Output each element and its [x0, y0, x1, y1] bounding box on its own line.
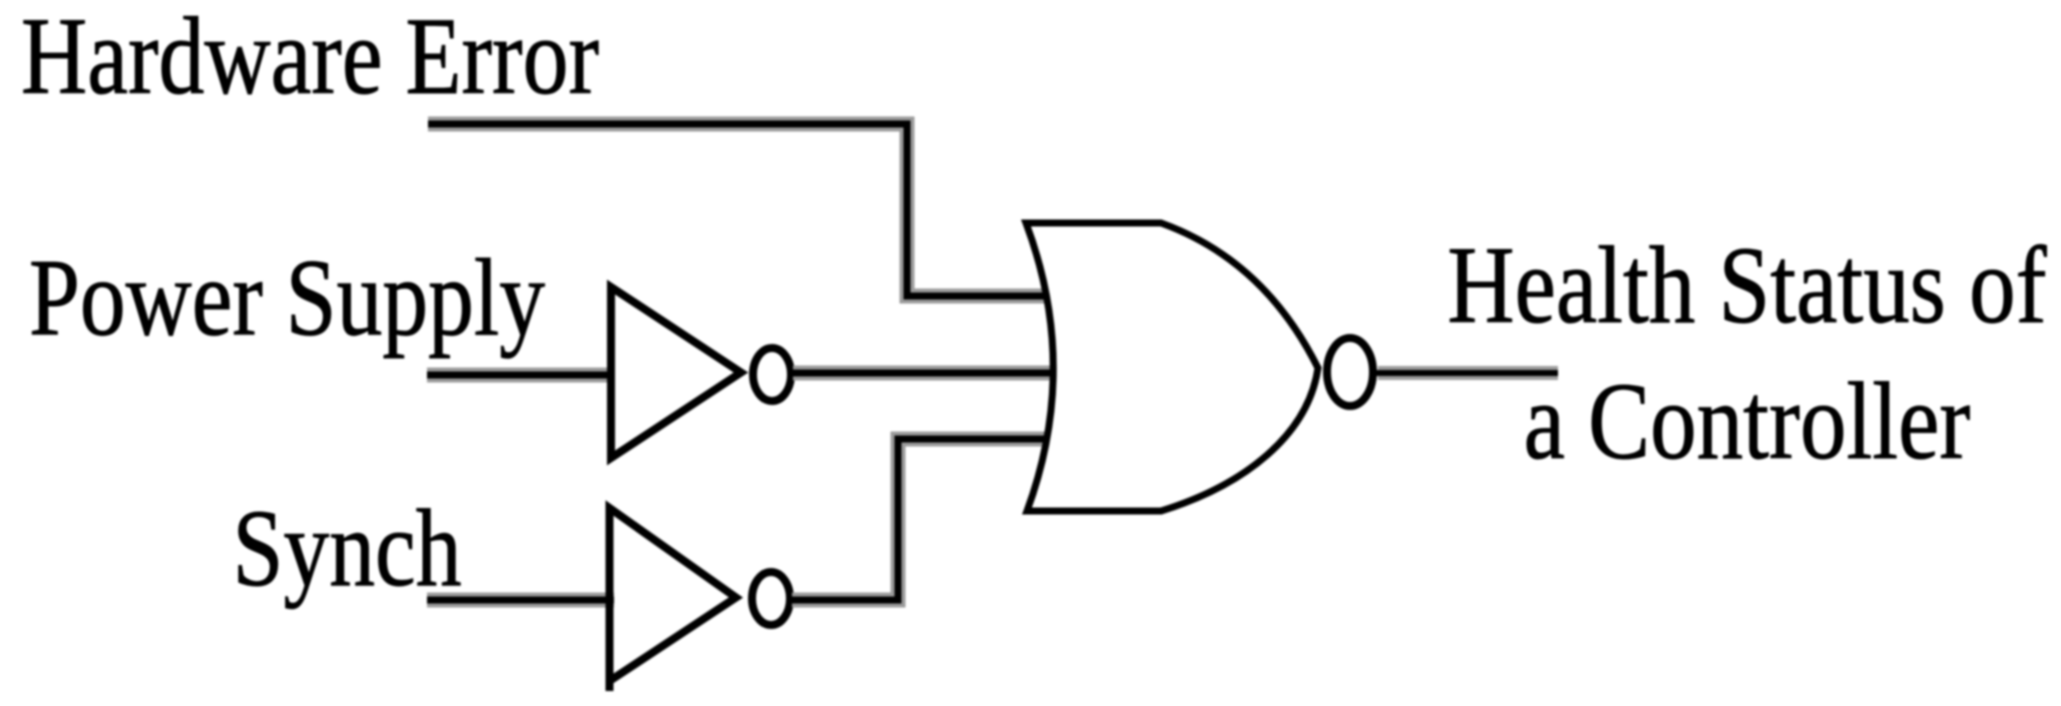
inverter U1 triangle	[611, 287, 741, 458]
NOR gate U3 body	[1026, 223, 1318, 511]
node Health Status of a Controller label line 2	[1524, 361, 1971, 483]
wire Hardware Error to NOR input 1	[428, 124, 1046, 296]
svg-text:Synch: Synch	[233, 488, 462, 610]
inverter U2 bubble	[752, 572, 790, 625]
wire inverter U2 output to NOR input 3	[792, 439, 1048, 600]
NOR gate U3 output bubble	[1327, 338, 1373, 406]
wire Power Supply to inverter U1 input	[427, 368, 614, 383]
node Health Status of a Controller label line 1	[1447, 225, 2047, 347]
svg-text:Power Supply: Power Supply	[29, 237, 545, 359]
wire inverter U1 output to NOR input 2	[793, 366, 1052, 381]
wire NOR output	[1378, 366, 1558, 380]
svg-text:a Controller: a Controller	[1524, 361, 1971, 483]
inverter U2 triangle	[610, 508, 737, 681]
wire inverter U2 left edge overshoot	[606, 678, 614, 691]
inverter U1 bubble	[753, 348, 791, 401]
node Power Supply label	[29, 237, 545, 359]
node Synch label	[233, 488, 462, 610]
svg-text:Hardware Error: Hardware Error	[21, 0, 599, 118]
wire Synch to inverter U2 input	[427, 593, 614, 608]
svg-text:Health Status of: Health Status of	[1447, 225, 2047, 347]
node Hardware Error label	[21, 0, 599, 118]
